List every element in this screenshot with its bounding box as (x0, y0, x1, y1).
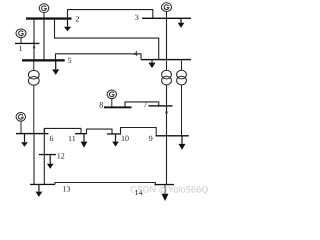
load arrow bus 9 (179, 136, 186, 150)
load arrow bus 12 (47, 155, 54, 169)
svg-text:11: 11 (68, 134, 76, 143)
wire line 2-4 (55, 19, 159, 60)
svg-text:3: 3 (135, 13, 139, 22)
generator G8 (107, 90, 116, 99)
wire line 6-13 (33, 134, 35, 184)
svg-text:2: 2 (75, 15, 79, 24)
wire line 4-5 (56, 54, 142, 60)
load arrow bus 5 (52, 62, 59, 75)
bus 4 (141, 59, 191, 60)
junction dot bus 7 (165, 111, 167, 113)
load arrow bus 11 (81, 134, 88, 147)
bus 2 (26, 17, 72, 19)
load arrow bus 14 (162, 185, 169, 201)
transformer T5-6 (28, 62, 39, 134)
wire line 4-7-9-14 vertical (166, 85, 168, 185)
bus 12 (39, 154, 56, 155)
wire G3 stem (166, 12, 168, 18)
junction dot bus 1 (33, 46, 35, 48)
svg-text:7: 7 (143, 100, 147, 109)
bus 13 (30, 184, 55, 185)
wire line 9-10 (121, 128, 157, 136)
svg-text:1: 1 (19, 44, 23, 53)
svg-text:12: 12 (57, 152, 65, 161)
load arrow bus 4 (149, 60, 156, 68)
bus 6 (16, 133, 48, 134)
bus 3 (142, 18, 191, 19)
svg-text:CSDN @Yolo566Q: CSDN @Yolo566Q (130, 185, 208, 195)
svg-text:6: 6 (50, 134, 54, 143)
generator G6 (16, 113, 25, 122)
svg-text:8: 8 (99, 101, 103, 110)
bus 14 (155, 184, 175, 185)
load arrow bus 3 (178, 19, 185, 28)
bus 8 (104, 106, 132, 108)
bus 5 (22, 59, 65, 61)
wire line 7-8 (125, 102, 159, 107)
load arrow bus 10 (112, 135, 119, 147)
transformer T4-9 (177, 60, 187, 135)
load arrow bus 13 (36, 185, 43, 197)
generator G2 (39, 4, 49, 13)
wire line 2-5 (43, 19, 45, 61)
wire line 2-3 (68, 10, 153, 19)
svg-text:5: 5 (68, 56, 72, 65)
wire line 3-4 (166, 19, 168, 60)
wire line 6-11 (44, 128, 81, 133)
wire G1 stem (20, 38, 22, 44)
wire G2 stem (43, 13, 45, 18)
bus 7 (148, 105, 172, 106)
bus 10 (107, 133, 121, 134)
bus 9 (156, 135, 189, 136)
wire G6 stem (20, 121, 22, 133)
wire line 6-12 / 12-13 (43, 128, 45, 184)
load arrow bus 6 (21, 134, 28, 147)
svg-text:9: 9 (149, 134, 153, 143)
wire line 1-2 / 1-5 (33, 19, 35, 61)
svg-text:10: 10 (121, 134, 129, 143)
wire G8 stem (111, 99, 113, 108)
generator G1 (16, 29, 26, 38)
transformer T4-7 (162, 60, 172, 85)
svg-text:13: 13 (63, 185, 71, 194)
bus 1 (15, 43, 40, 44)
generator G3 (162, 3, 172, 12)
bus 11 (75, 133, 87, 134)
load arrow bus 2 (64, 20, 71, 32)
wire line 13-14 (55, 183, 155, 185)
wire line 10-11 (87, 129, 113, 134)
